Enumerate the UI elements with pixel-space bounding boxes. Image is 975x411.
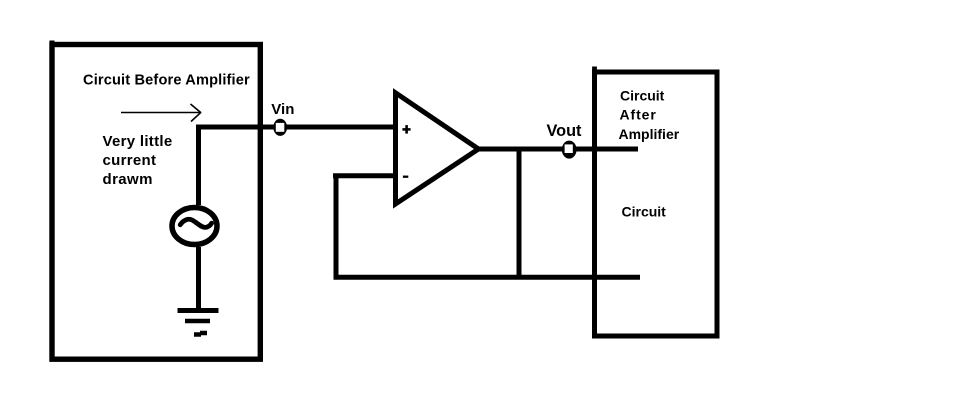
svg-text:Amplifier: Amplifier bbox=[619, 126, 680, 142]
svg-text:After: After bbox=[620, 107, 657, 123]
svg-text:drawm: drawm bbox=[103, 171, 153, 188]
svg-text:Very little: Very little bbox=[103, 133, 173, 150]
svg-text:Circuit: Circuit bbox=[620, 88, 665, 104]
svg-text:Vout: Vout bbox=[547, 122, 583, 140]
svg-text:Circuit Before Amplifier: Circuit Before Amplifier bbox=[83, 73, 250, 89]
svg-text:Circuit: Circuit bbox=[622, 204, 667, 220]
svg-text:Vin: Vin bbox=[271, 101, 294, 118]
svg-text:current: current bbox=[103, 152, 157, 169]
